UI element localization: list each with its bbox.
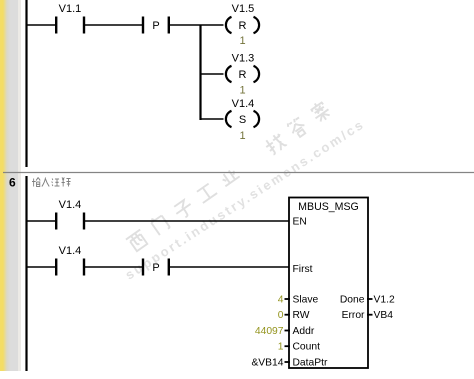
pin Addr with value 44097 bbox=[255, 326, 315, 337]
pin Error with output VB4 bbox=[342, 310, 394, 321]
svg-text:V1.4: V1.4 bbox=[232, 98, 255, 110]
coil V1.4 (S set) bbox=[226, 98, 259, 142]
svg-text:V1.3: V1.3 bbox=[232, 53, 255, 65]
西 bbox=[126, 230, 149, 253]
svg-text:DataPtr: DataPtr bbox=[293, 358, 328, 369]
pin RW with value 0 bbox=[278, 310, 310, 321]
输 bbox=[32, 178, 40, 187]
network separator line bbox=[3, 172, 474, 174]
power rail (top network) bbox=[25, 0, 27, 167]
svg-text:V1.1: V1.1 bbox=[59, 3, 82, 15]
svg-text:6: 6 bbox=[9, 176, 16, 190]
pin Slave with value 4 bbox=[278, 295, 319, 306]
门 bbox=[149, 213, 170, 235]
svg-text:1: 1 bbox=[239, 85, 245, 97]
pin DataPtr with value &VB14 bbox=[251, 358, 328, 369]
答 bbox=[286, 116, 308, 139]
wire contact to P contact row2 bbox=[85, 266, 142, 268]
svg-text:0: 0 bbox=[278, 310, 284, 321]
svg-text:P: P bbox=[152, 20, 159, 32]
svg-text:1: 1 bbox=[278, 342, 284, 353]
子 bbox=[172, 198, 195, 220]
svg-text:RW: RW bbox=[293, 310, 310, 321]
svg-text:Error: Error bbox=[342, 310, 365, 321]
svg-text:Slave: Slave bbox=[293, 295, 319, 306]
svg-text:1: 1 bbox=[239, 130, 245, 142]
工 bbox=[196, 183, 217, 203]
contact P (positive edge, row2) bbox=[142, 259, 170, 276]
svg-text:V1.2: V1.2 bbox=[374, 295, 395, 306]
left gutter column with yellow edge bbox=[0, 0, 21, 371]
svg-text:R: R bbox=[239, 20, 247, 32]
power rail (network 6) bbox=[25, 176, 27, 371]
svg-text:P: P bbox=[152, 262, 159, 274]
wire V1.1 to P contact bbox=[85, 24, 142, 26]
svg-text:1: 1 bbox=[239, 35, 245, 47]
coil V1.3 (R reset) bbox=[226, 53, 259, 97]
wire rail to contact V1.1 bbox=[27, 24, 55, 26]
wire P to coil V1.5 bbox=[170, 24, 224, 26]
wire rail to contact V1.4 row2 bbox=[27, 266, 55, 268]
wire branch to coil V1.4 bbox=[201, 118, 224, 120]
svg-text:Count: Count bbox=[293, 342, 321, 353]
wire rail to contact V1.4 row1 bbox=[27, 220, 55, 222]
contact V1.1 bbox=[55, 3, 85, 34]
svg-text:EN: EN bbox=[293, 217, 307, 228]
contact V1.4 (First row) bbox=[55, 245, 85, 276]
contact P (positive edge) bbox=[142, 17, 170, 34]
wire branch to coil V1.3 bbox=[201, 73, 224, 75]
业 bbox=[219, 167, 240, 186]
contact V1.4 (EN row) bbox=[55, 199, 85, 230]
watermark: big chinese text 西门子工业 找答案 (drawn strokes, rotated) bbox=[124, 99, 332, 253]
案 bbox=[308, 99, 332, 124]
svg-text:4: 4 bbox=[278, 295, 284, 306]
network comment 输入注释 (drawn strokes) bbox=[32, 178, 71, 187]
svg-text:VB4: VB4 bbox=[374, 310, 394, 321]
svg-text:V1.5: V1.5 bbox=[232, 3, 255, 15]
branch vertical wire bbox=[199, 25, 201, 120]
wire P to First pin bbox=[170, 266, 289, 268]
svg-text:S: S bbox=[239, 114, 246, 126]
coil V1.5 (R reset) bbox=[226, 3, 259, 47]
pin Count with value 1 bbox=[278, 342, 320, 353]
入 bbox=[42, 178, 49, 187]
svg-text:Done: Done bbox=[340, 295, 365, 306]
svg-text:R: R bbox=[239, 69, 247, 81]
svg-text:V1.4: V1.4 bbox=[59, 245, 82, 257]
释 bbox=[62, 178, 71, 187]
svg-text:First: First bbox=[293, 264, 313, 275]
pin Done with output V1.2 bbox=[340, 295, 395, 306]
svg-text:44097: 44097 bbox=[255, 326, 284, 337]
function block U: MBUS_MSG box bbox=[289, 198, 368, 369]
svg-text:&VB14: &VB14 bbox=[251, 358, 283, 369]
注 bbox=[52, 179, 60, 187]
svg-text:V1.4: V1.4 bbox=[59, 199, 82, 211]
svg-text:Addr: Addr bbox=[293, 326, 315, 337]
找 bbox=[263, 132, 287, 156]
wire contact to EN pin bbox=[85, 220, 289, 222]
watermark: url support.industry.siemens.com/cs bbox=[122, 116, 367, 282]
svg-text:MBUS_MSG: MBUS_MSG bbox=[298, 201, 359, 213]
